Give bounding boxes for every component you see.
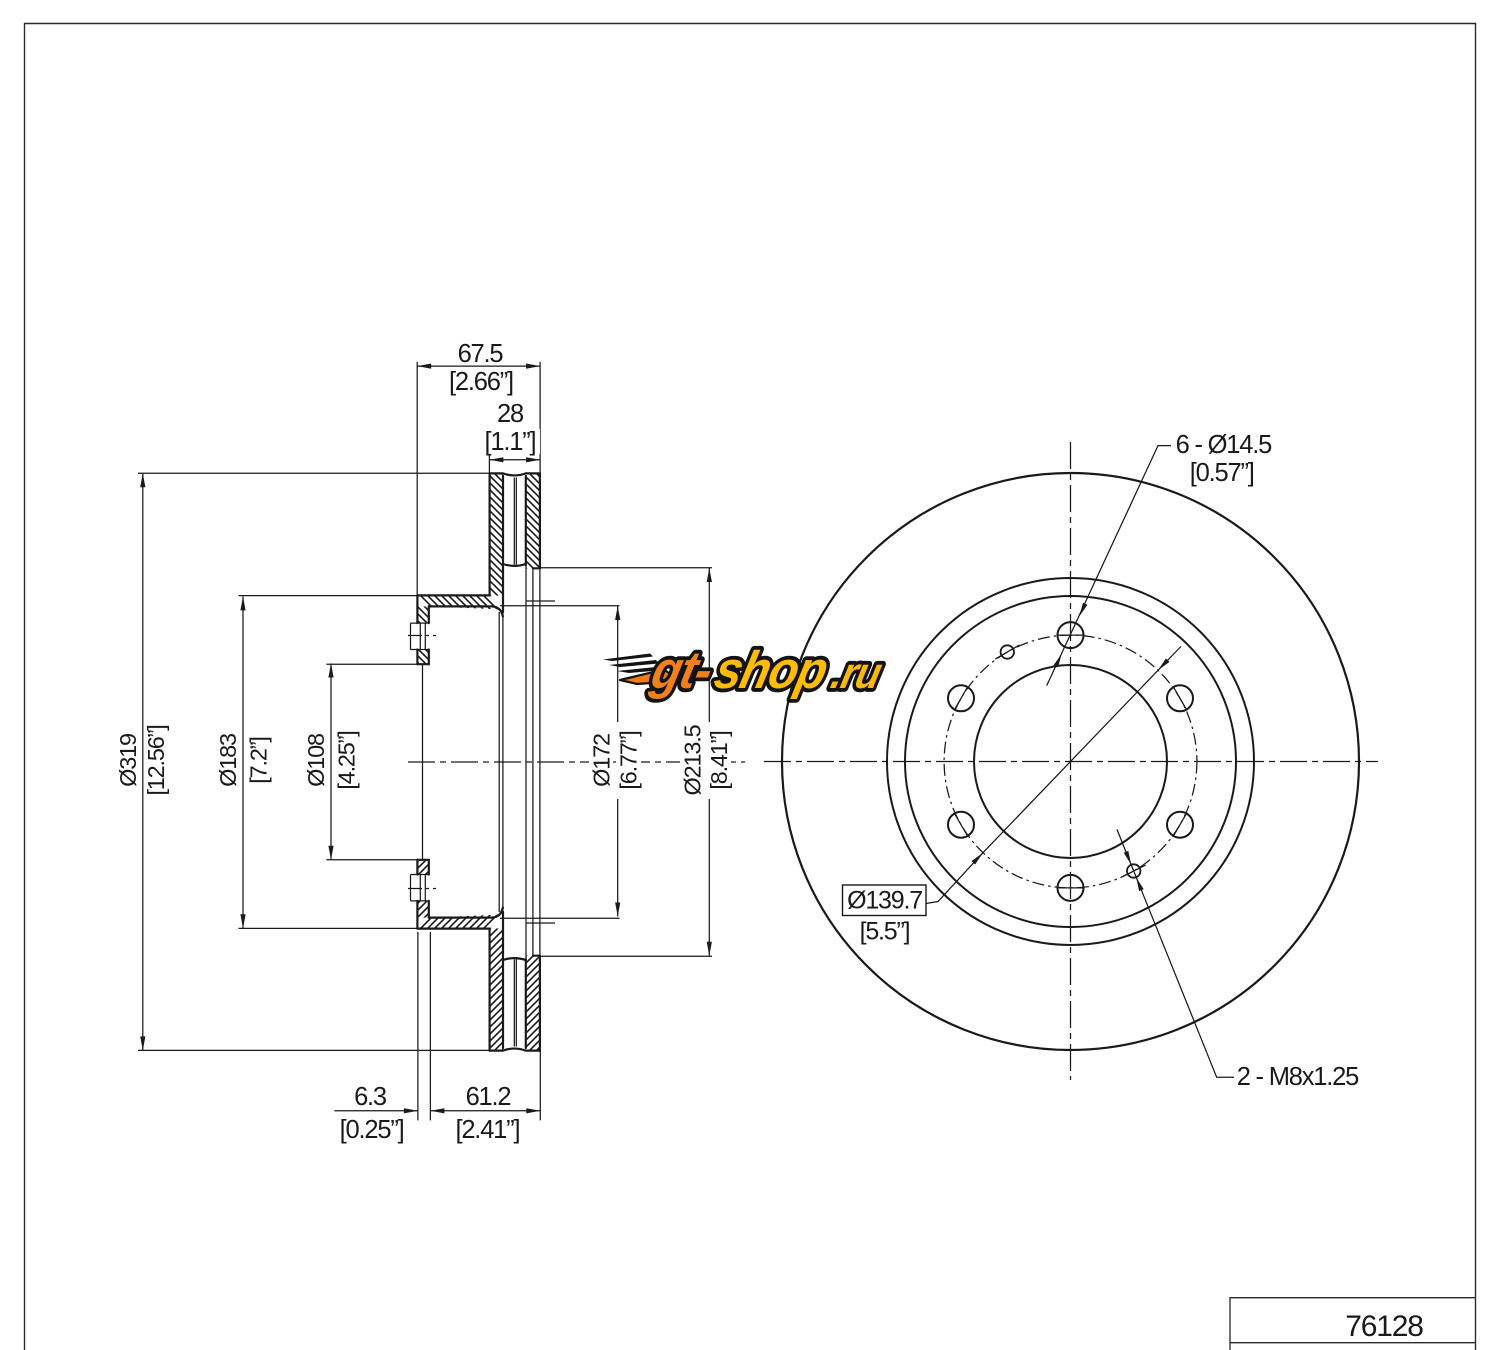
dimension 6.3 [346,1083,393,1111]
arrow 67.5 right [526,364,540,369]
vertical centerline [1070,442,1072,1080]
extension line Ø213.5 [541,567,712,569]
extension line left 67.5 [416,362,418,597]
section view axis centerline [408,761,745,763]
svg-text:Ø108: Ø108 [303,733,329,787]
svg-text:61.2: 61.2 [466,1083,511,1111]
logo text [645,641,888,700]
vent vane edge lines [514,478,516,565]
leader 6-Ø14.5 [1047,446,1171,686]
dimension Ø172 rotated [588,723,614,798]
svg-text:[0.57”]: [0.57”] [1190,459,1254,487]
pilot step edge line [526,600,555,602]
extension line right 67.5/28 [539,362,541,474]
horizontal centerline [764,761,1378,763]
extension line left 28 [488,455,490,473]
M8 service hole 120deg [1001,645,1014,658]
stud hole -30deg [1167,812,1193,838]
diameter arrow upper right [1158,659,1170,671]
svg-text:.ru: .ru [827,649,887,699]
M8 leader arrow upper [1124,851,1132,865]
orange swoosh [620,670,680,685]
dimension [2.41"] [448,1116,526,1144]
outboard face circle projection [539,568,541,762]
dimension [4.25"] rotated [334,722,360,799]
svg-text:[8.41”]: [8.41”] [706,731,732,789]
tangent dash through 120deg M8 hole [995,645,1019,659]
stud hole top 90deg [1058,622,1084,648]
hat outer circle Ø213.5 [887,578,1254,945]
tangent dash through top stud hole [1057,634,1085,636]
leader arrow upper [1079,603,1087,617]
dimension line Ø183 [242,596,244,928]
svg-text:Ø183: Ø183 [215,733,241,787]
stud hole bottom -90deg [1058,875,1084,901]
hat web inner surface with fillet [429,606,503,616]
gt-shop.ru watermark logo [603,641,889,700]
boxed dimension Ø139.7 [843,885,927,916]
extension line outboard face [539,957,541,1120]
hat mounting face outer [416,595,418,664]
hatch left friction plate [490,473,503,595]
dimension line 6.3 [334,1110,418,1112]
speed line 3 [617,667,664,674]
svg-text:67.5: 67.5 [458,340,504,368]
extension line top Ø319 [138,472,489,474]
arrow Ø213.5 top [707,568,712,582]
stud hole 210deg [948,812,974,838]
tangent dash through 30deg stud hole [1173,686,1187,710]
arrow Ø108 top [328,664,333,678]
extension line Ø108 [326,663,417,665]
dimension Ø183 rotated [215,723,241,798]
hat step circle Ø183 [905,596,1236,927]
dimension [0.25"] [333,1116,411,1144]
stud hole spotface notch [411,623,418,649]
svg-text:[1.1”]: [1.1”] [485,428,536,456]
tangent dash through 150deg stud hole [954,686,968,710]
center bore edge Ø108 [417,663,428,665]
bore chamfer circle projection [422,664,424,762]
extension line hat inner [429,932,431,1120]
arrow Ø183 bottom [240,914,245,928]
dimension line Ø213.5 [708,568,710,956]
arrow 61.2 right [526,1108,540,1113]
dimension Ø108 rotated [303,723,329,798]
outer circle Ø319 [782,473,1359,1050]
bolt circle Ø139.7 dash-dot [944,635,1197,888]
svg-text:[6.77”]: [6.77”] [616,731,642,789]
dimension 67.5 [452,340,509,368]
arrow 6.3 [404,1108,418,1113]
tangent dash through bottom stud hole [1057,887,1085,889]
svg-text:Ø319: Ø319 [115,734,141,787]
stud hole 30deg [1167,685,1193,711]
extension line Ø172 [500,605,620,607]
extension line Ø183 [239,595,418,597]
hatch hat flange above stud hole [417,606,428,623]
svg-text:Ø139.7: Ø139.7 [847,887,922,915]
disc OD edge with vent slot end [490,473,540,475]
svg-text:[4.25”]: [4.25”] [334,731,360,789]
section view upper half (mirrored below) [239,473,713,1050]
arrow Ø172 top [615,606,620,620]
extension line bottom Ø319 [138,1049,489,1051]
svg-text:[2.66”]: [2.66”] [449,368,513,396]
center bore circle Ø108 [974,665,1167,858]
extension line hat face [417,932,419,1120]
dimension [2.66"] [443,368,519,396]
dimension line 28 [489,459,540,461]
leader 2-M8x1.25 [1117,830,1234,1078]
svg-text:gt-: gt- [645,641,717,700]
dimension [1.1"] [481,428,540,456]
arrow Ø172 bottom [615,903,620,917]
dimension [7.2"] rotated [246,727,272,794]
vent slot left wall [502,476,504,612]
section view lower half (mirror) [239,762,713,1051]
dimension line Ø172 [617,606,619,917]
title block [1230,1298,1476,1350]
speed line 2 [609,660,659,667]
svg-text:[12.56”]: [12.56”] [143,725,169,795]
dimension 61.2 [459,1083,517,1111]
web fillet circle projection [498,612,500,762]
step chamfer circle projection [532,569,534,762]
svg-text:[5.5”]: [5.5”] [860,918,910,946]
tangent dash through -30deg stud hole [1173,813,1187,837]
speed line 1 [603,654,653,662]
vent slot inner end arc [503,564,526,566]
arrow 28 right [526,457,540,462]
svg-text:6 - Ø14.5: 6 - Ø14.5 [1176,431,1273,459]
dimension [8.41"] rotated [706,722,732,799]
outboard step at hat Ø213.5 [533,567,540,569]
svg-text:6.3: 6.3 [354,1083,387,1111]
front view [764,442,1378,1080]
stud hole bore lines in section [420,623,425,649]
vent wall circle projection [525,566,527,762]
dimension Ø213.5 rotated [679,713,705,808]
dimension Ø319 rotated [115,723,141,798]
dimension [12.56"] rotated [143,712,169,809]
hatch right friction plate [526,473,540,568]
stud hole edges in section [417,623,428,649]
stud hole 150deg [948,685,974,711]
arrow Ø319 bottom [140,1036,145,1050]
stud hole centerline in section [408,635,436,637]
hatch hat web [417,595,502,609]
M8 leader arrow lower [1136,877,1144,891]
dimension 28 [494,400,527,428]
svg-text:Ø213.5: Ø213.5 [679,724,705,795]
arrow 61.2 left [430,1108,444,1113]
hat web outer surface [417,594,489,596]
outboard friction face [539,473,541,568]
M8 service hole 300deg [1127,864,1140,877]
svg-text:[0.25”]: [0.25”] [340,1116,404,1144]
dimension [5.5"] [852,918,917,946]
svg-text:[7.2”]: [7.2”] [246,737,272,783]
dimension line 61.2 [430,1110,540,1112]
arrow 67.5 left [417,364,431,369]
hatch hat flange below stud hole [417,650,428,665]
dimension line Ø108 [330,664,332,860]
svg-text:Ø172: Ø172 [588,734,614,787]
svg-text:28: 28 [497,400,524,428]
hat mounting face inner [428,606,430,664]
dimension line 67.5 [417,365,540,367]
dimension line Ø319 [142,473,144,1050]
tangent dash through 210deg stud hole [954,813,968,837]
bolt circle diameter line Ø139.7 [926,647,1181,904]
svg-text:[2.41”]: [2.41”] [455,1116,519,1144]
arrow 28 left [489,457,503,462]
arrow Ø183 top [240,596,245,610]
svg-text:2 - M8x1.25: 2 - M8x1.25 [1237,1063,1359,1091]
tangent dash through 300deg M8 hole [1122,865,1146,877]
arrow Ø108 bottom [328,846,333,860]
leader arrow lower [1054,654,1062,668]
arrow Ø213.5 bottom [707,942,712,956]
vent slot right wall [525,476,527,565]
dimension [6.77"] rotated [616,722,642,799]
arrow Ø319 top [140,473,145,487]
diameter arrow lower left [972,853,984,865]
svg-text:shop: shop [709,641,832,700]
inboard friction face [489,473,491,595]
svg-text:76128: 76128 [1345,1310,1423,1343]
plate inner circle projection [502,612,504,762]
